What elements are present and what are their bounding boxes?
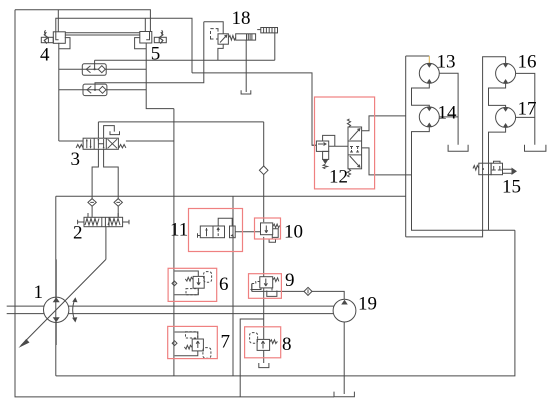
relief valve 8 [250,333,278,351]
directional valve 3 [76,126,126,150]
tank of 18 [241,90,251,94]
wire: x=233 from rail down to bottom line [232,196,234,376]
wire: motor 14 bottom wrap down rail B [412,127,515,230]
check diamond near 19 [304,287,312,295]
muffler/orifice right of 18 [257,28,277,33]
svg-text:19: 19 [358,294,377,315]
wire: valve 3 bottom left leg to diamond and valve 2 [92,149,98,217]
svg-text:9: 9 [285,270,295,291]
wire: x=263.7 from 9 down through junctions to 8 [263,288,265,340]
wire: 12 output to valve [329,145,348,147]
wire: 19 bottom to tank [343,322,345,394]
svg-text:1: 1 [34,282,44,303]
red frame 7 [168,326,218,358]
wire: supply rail 2 from left edge [7,313,334,315]
pilot-operated check valve block 1 [59,64,146,76]
valve 10 [261,223,280,242]
wire: step under 4 [59,38,70,49]
wire: motor 13 bottom wrap to motor 14 [412,83,430,107]
wire: x=263.7 from 10 to 9 [263,237,265,277]
svg-text:3: 3 [71,149,81,170]
wire: vertical x=263.7 from pilot line down to component 10 [263,122,265,222]
wire: outer left/bottom return line [15,10,334,397]
wire: check valve 2 pilot to 18 enclosure [95,22,204,90]
relief valve 7 [172,332,211,358]
pilot valve 18 [211,29,256,45]
red frame 8 [245,327,281,358]
wire: main rail y=196.3 [56,195,406,197]
wire: rail from 5 down and jog [146,43,174,109]
red frame 10 [255,218,281,239]
wire: motor 14 right port [439,116,458,118]
wire: motor 16 bottom wrap to motor 17 [489,83,506,107]
red frame 6 [168,268,217,301]
wire: step under 5 [135,38,147,49]
wire: branch y=319 to x=240.2 down to bottom border [240,319,264,397]
red frame 9 [249,274,282,299]
wire: rail A bottom link to 16 rail [406,57,506,237]
svg-text:15: 15 [502,177,521,198]
motor 16 [496,63,516,83]
pump/motor 19 [333,299,356,322]
svg-text:2: 2 [73,223,83,244]
wire: pilot line y=60.2 muffler to check valve 1 [95,33,275,69]
wire: bottom return line y=375.9 [56,230,515,376]
wire: rail A of 13/14 [406,56,430,237]
red frame 11 [189,209,243,252]
valve 11 [198,218,261,238]
svg-text:6: 6 [219,274,229,295]
proportional reducing valve 2 [78,213,129,227]
svg-text:16: 16 [518,52,537,73]
valve group 12 [312,119,362,177]
svg-text:8: 8 [282,334,292,355]
wire: outer stub of 4 to line1 [57,10,59,32]
wire: 18 cylinder drain to tank [245,40,247,92]
svg-text:11: 11 [170,220,188,241]
wire: rail from 4 down to valve 3 [58,43,60,141]
wire: long vertical x=173.9 through valves 6 and 7 to bottom line [173,109,175,376]
wire: valve 3 bottom right leg to diamond and valve 2 [104,149,119,217]
axle double line between 4 and 5 [65,33,140,35]
check diamond right above 2 [114,199,122,207]
wire: 12 top right loop to rail A [362,116,406,131]
svg-text:7: 7 [221,332,231,353]
svg-text:14: 14 [438,103,458,124]
wire: top line 1 to component 5 [15,10,150,32]
wire: motor 13 right port [439,73,458,144]
wire: valve 3 left port [59,140,83,142]
svg-text:10: 10 [284,222,303,243]
wire: 12 bottom right loop to rail B [362,148,412,175]
relief valve 6 [172,271,212,295]
wire: inner stub of 5 to line2 [144,18,146,31]
wire: x=263.7 from 8 to tank [263,350,265,363]
check valve diamond on x=263.7 [259,166,268,175]
motor 14 [419,107,439,127]
motor 13 [419,63,439,83]
wire: supply rail 1 from left edge [7,305,334,307]
wire: valve 2 center down to diagonal [105,227,107,260]
wire: 18 drain step [218,44,223,60]
wire: valve 3 right port [126,140,174,142]
reducing valve 9 [251,277,279,297]
brake cylinder 4 [41,30,65,43]
svg-text:17: 17 [518,99,537,120]
wire: motor 13 top stub (yellow) [428,56,430,63]
wire: 19 top line with check diamond [252,284,344,300]
wire: long line y=72.9 into component 12 [192,73,316,145]
red frame 12 [315,97,375,189]
tank of 8 [259,363,269,368]
pilot-operated check valve block 2 [59,84,146,96]
wire: motor 17 right port [516,116,535,118]
wire: motor 16 top stub [505,57,507,64]
motor 17 [496,107,516,127]
svg-text:12: 12 [329,167,348,188]
tank of 16/17 [525,145,546,152]
wire: motor 16 right port [516,73,535,144]
svg-text:5: 5 [151,44,161,65]
wire: valve 3 pilot up and long line y=121.9 [98,122,263,138]
pump 1 [19,259,106,348]
check diamond left above 2 [88,199,96,207]
wire: motor 17 bottom wrap down rail B16 [489,127,506,230]
brake cylinder 5 [140,30,167,43]
tank of 13/14 [448,145,468,152]
svg-text:4: 4 [40,45,50,66]
wire: top line 2 from 4 to drop at x=192 [56,18,192,73]
svg-text:18: 18 [232,8,251,29]
wire: 18 top supply [204,22,223,34]
valve 15 [473,161,517,175]
tank of 19 [334,392,354,397]
svg-text:13: 13 [437,52,456,73]
wire: pump column x=55.8 down to bottom line [55,196,57,376]
